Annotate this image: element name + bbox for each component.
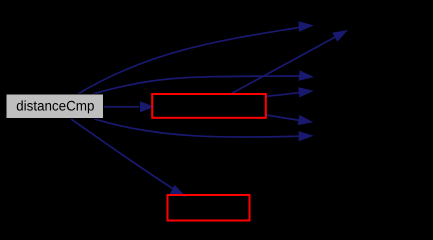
node distanceCmp (current node, grey fill)	[6, 94, 104, 119]
edge middle red node -> node2 (diagonal up right, label invisible)	[232, 30, 349, 94]
bottom red node (truncated, label invisible on black)	[168, 195, 250, 221]
edge middle red node -> node5 (label invisible on black)	[266, 115, 314, 125]
edge distanceCmp -> middle red node	[104, 101, 155, 112]
middle red node (truncated, label invisible on black)	[152, 94, 266, 118]
edge distanceCmp -> bottom red node	[71, 119, 186, 197]
edge distanceCmp -> node6 (lower right, label invisible on black)	[94, 119, 314, 142]
edge distanceCmp -> node3 (right, label invisible on black)	[91, 70, 314, 94]
edge distanceCmp -> node1 (top right, label invisible on black)	[77, 21, 314, 94]
edge middle red node -> node4 (label invisible on black)	[266, 87, 314, 97]
